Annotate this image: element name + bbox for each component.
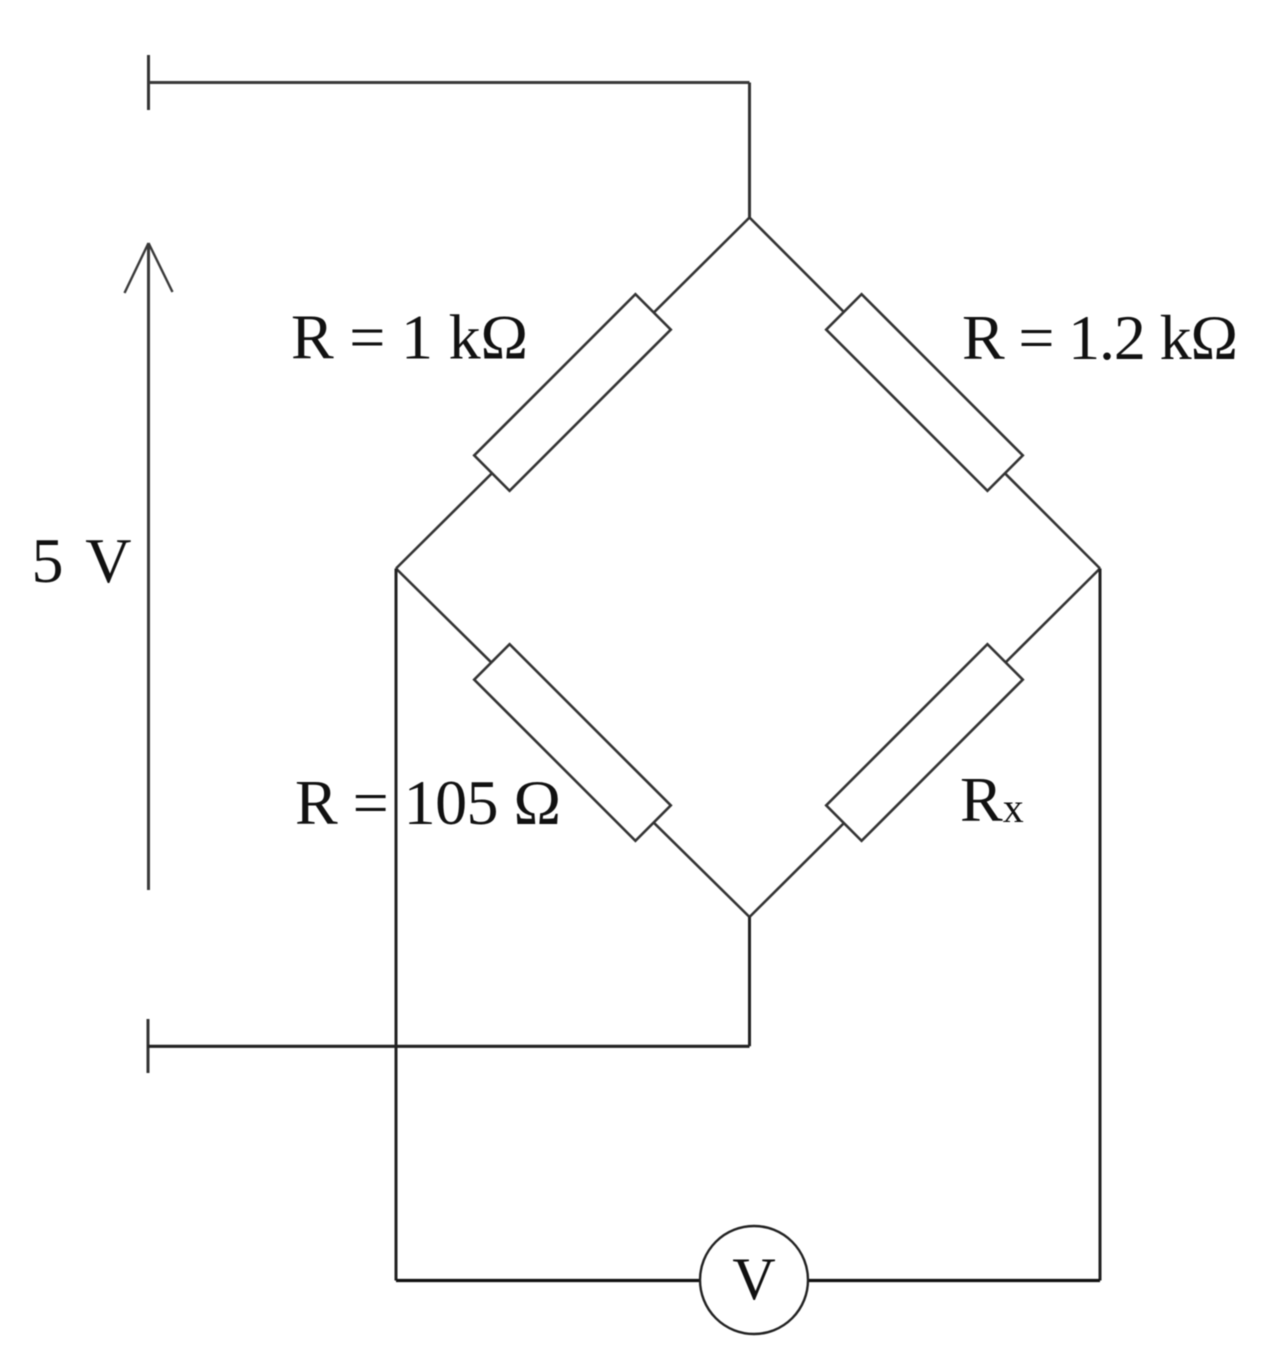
svg-text:R = 1.2 kΩ: R = 1.2 kΩ bbox=[962, 302, 1238, 373]
svg-text:Rx: Rx bbox=[960, 764, 1024, 835]
svg-text:R = 105 Ω: R = 105 Ω bbox=[295, 767, 561, 838]
svg-text:5 V: 5 V bbox=[32, 525, 132, 596]
svg-text:R = 1 kΩ: R = 1 kΩ bbox=[291, 302, 528, 373]
svg-text:V: V bbox=[732, 1246, 775, 1312]
